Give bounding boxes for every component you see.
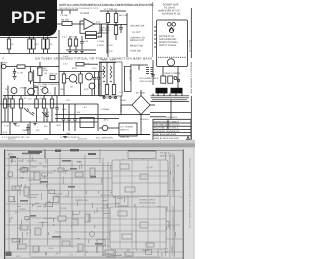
page2 wire v9 <box>115 160 117 252</box>
page2 wire h16 <box>30 256 160 258</box>
wire bridge bottom <box>140 115 142 135</box>
svg-text:2N3904: 2N3904 <box>20 87 28 90</box>
page2 module B rung 2 <box>110 230 166 232</box>
transistor Q6 <box>89 83 95 89</box>
svg-text:BABY BASS AMPLIFIER: BABY BASS AMPLIFIER <box>154 133 177 136</box>
page2 stub <box>161 252 163 257</box>
resistor R1 <box>7 39 10 49</box>
capacitor C17 <box>27 124 29 127</box>
page2 text cluster <box>138 197 180 206</box>
page2 dark mark <box>68 186 75 188</box>
svg-text:A.C. LINE FUSE 2A: A.C. LINE FUSE 2A <box>60 136 80 139</box>
svg-text:AND RATED AT 5% TOLERANCE TYPE: AND RATED AT 5% TOLERANCE TYPE <box>59 7 99 10</box>
page2 stub <box>94 211 96 214</box>
tone wire A <box>100 62 102 85</box>
capacitor C9 filter <box>171 88 183 94</box>
page2 wire v100 <box>99 149 101 163</box>
page2 wire short <box>117 197 123 199</box>
svg-text:ON TUBES GROUNDED TYPICAL OR: ON TUBES GROUNDED TYPICAL OR TOBIAS CONN… <box>35 57 152 61</box>
page2 junction <box>166 251 167 252</box>
tone squiggle 2 <box>110 66 112 78</box>
page2 stub <box>26 232 28 236</box>
page2 component box <box>46 203 53 207</box>
wire stub row b <box>24 87 26 96</box>
capacitor C21 <box>7 96 9 104</box>
svg-text:4-1.5 SCHEMATIC NO. 215: 4-1.5 SCHEMATIC NO. 215 <box>2 136 30 139</box>
page2 resistor r2 <box>34 172 40 180</box>
page2 resistor r12 <box>85 214 90 222</box>
plate line 1 <box>151 95 190 97</box>
wire stub row d <box>54 87 56 96</box>
page2 resistor r10 <box>58 216 66 221</box>
page2 wire short <box>102 200 108 202</box>
page2 component box <box>49 190 55 194</box>
page2 component box <box>162 222 169 228</box>
page2 module box <box>115 166 168 196</box>
svg-text:1K: 1K <box>11 43 14 46</box>
page2 junction <box>136 165 137 166</box>
wire midleft rail <box>0 103 55 105</box>
svg-text:60HZ: 60HZ <box>121 99 127 102</box>
page2 stub <box>93 225 95 228</box>
page2 module B rung 3 <box>110 241 166 243</box>
page2 header dash <box>22 153 40 155</box>
svg-text:MIX 1.3K: MIX 1.3K <box>119 14 128 17</box>
svg-text:C22: C22 <box>66 99 71 102</box>
wire stub row c <box>37 86 39 96</box>
page2 left stub <box>31 157 33 161</box>
svg-text:LO CUT: LO CUT <box>132 31 141 34</box>
page2 wire h6 <box>6 190 180 192</box>
svg-text:1K5: 1K5 <box>109 44 113 47</box>
svg-text:IC 4558: IC 4558 <box>80 12 90 15</box>
page2 wire short <box>100 194 112 196</box>
svg-text:4.5K: 4.5K <box>98 35 103 38</box>
wire r24 <box>84 63 98 65</box>
page2 module thru line a <box>119 160 121 249</box>
transistor Q2 <box>86 73 93 80</box>
page2 stub <box>172 218 174 223</box>
page2 stub <box>129 166 131 171</box>
page2 resistor r22 <box>155 219 161 224</box>
svg-text:TR-200 OUTPUT: TR-200 OUTPUT <box>139 199 156 202</box>
svg-text:C22: C22 <box>109 50 114 53</box>
wire module down right <box>177 67 179 89</box>
svg-text:BASS: BASS <box>102 59 108 62</box>
wire amp mid rail <box>120 105 122 115</box>
page2 module B vline <box>135 207 137 249</box>
page2 dark mark <box>40 181 48 183</box>
page2 wire short <box>142 249 149 251</box>
ground sym g1 <box>13 123 16 125</box>
page2 component box <box>9 197 15 202</box>
wire output down <box>106 24 108 54</box>
wire feedback loop <box>80 21 86 33</box>
page2 wire short <box>60 169 69 171</box>
svg-text:R 220K: R 220K <box>97 44 104 47</box>
svg-text:SLO-BLO: SLO-BLO <box>140 118 149 121</box>
psu wire left <box>152 60 154 85</box>
page2 dark mark <box>95 243 103 245</box>
svg-text:4-15: 4-15 <box>3 131 8 134</box>
comb tick 2 <box>157 94 159 96</box>
page2 stub <box>26 218 28 222</box>
page2 stub <box>48 232 50 235</box>
page2 module A part 3 <box>125 187 135 192</box>
page2 wire v14 <box>172 153 174 256</box>
transistor Q5b <box>42 88 48 94</box>
page2 stub <box>106 204 108 208</box>
page2 left stub <box>88 214 90 222</box>
page2 component box <box>163 172 168 176</box>
page2 dark mark <box>140 213 147 215</box>
page2 left hseg <box>19 238 27 240</box>
svg-text:1K: 1K <box>47 111 50 114</box>
page2 module B part 1 <box>118 211 127 216</box>
svg-text:35 V: 35 V <box>104 119 109 122</box>
page2 left hseg <box>73 213 79 215</box>
page2 stub <box>84 218 86 223</box>
svg-text:VOLUME 10K: VOLUME 10K <box>130 25 145 28</box>
page2 dark mark <box>55 150 61 153</box>
page2 module thru line d <box>159 160 161 249</box>
page2 left stub <box>22 232 24 238</box>
page2 wire short <box>114 160 123 162</box>
svg-text:MOTOR PLUS: MOTOR PLUS <box>159 35 175 38</box>
page2 module A part 2 <box>140 174 148 179</box>
wire badge stub A <box>8 37 10 40</box>
wire psu rail <box>130 64 148 66</box>
svg-text:C.1: C.1 <box>48 92 52 95</box>
page2 stub <box>128 246 130 250</box>
page2 stub <box>113 225 115 230</box>
svg-text:AMPLIT COMAS: AMPLIT COMAS <box>159 44 177 47</box>
page2 module rung extra a <box>112 175 168 177</box>
page2 stub <box>46 184 48 187</box>
page2 left stub <box>29 229 31 233</box>
page2 wire short <box>44 217 56 219</box>
potentiometer VR1 volume <box>114 26 117 35</box>
svg-text:POWER 215: POWER 215 <box>75 199 88 202</box>
page2 wire h13 <box>6 238 183 240</box>
page2 wire short <box>77 161 81 163</box>
relay K1 <box>80 118 94 128</box>
page2 dark mark <box>28 151 42 153</box>
page2 stub <box>135 246 137 251</box>
page2 resistor r8 <box>20 225 28 230</box>
terminal circles <box>168 23 172 27</box>
page2 stub <box>167 197 169 202</box>
transistor Q4 <box>11 88 17 94</box>
page2 stub <box>107 252 109 255</box>
page2 stub <box>22 239 24 243</box>
capacitor C11 <box>94 72 96 78</box>
page2 stub <box>23 166 25 169</box>
diode D3 <box>42 112 46 116</box>
page2 header mark <box>44 150 46 159</box>
svg-text:J2: J2 <box>2 57 5 60</box>
resistor R24 <box>76 63 84 66</box>
page2 junction <box>11 217 12 218</box>
page2 resistor r13 <box>18 244 26 249</box>
page2 wire short <box>76 238 80 240</box>
wire tone rail low <box>99 62 116 64</box>
svg-text:AMPLIFIEROND: AMPLIFIEROND <box>159 38 177 41</box>
wire transformer <box>120 96 122 112</box>
page2 stub <box>123 218 125 222</box>
page2 component box <box>53 196 59 203</box>
page2 dark mark <box>88 153 96 155</box>
svg-text:47PF: 47PF <box>84 88 90 91</box>
page2 module A part 1 <box>120 164 129 169</box>
svg-text:250K: 250K <box>43 69 48 72</box>
comb tick 6 <box>181 94 183 96</box>
wire stub pre-amp a <box>61 10 63 14</box>
page2 stub <box>109 232 111 236</box>
page2 wire h1 <box>6 158 100 160</box>
page2 module A rung 1 <box>112 170 168 172</box>
tone wire B <box>106 62 108 85</box>
page2 junction <box>94 170 95 171</box>
page2 wire short <box>27 160 37 162</box>
bus left upper <box>0 37 57 39</box>
wire module down left <box>162 67 164 77</box>
resistor R15 <box>30 67 32 72</box>
svg-text:REAR BOTTLE SPEAKER AMP: REAR BOTTLE SPEAKER AMP <box>190 62 193 94</box>
page gap shadow <box>0 140 195 143</box>
svg-text:REG: REG <box>43 166 48 169</box>
svg-text:4.7: 4.7 <box>36 43 40 46</box>
connector strip CN1 <box>125 66 132 91</box>
page2 wire short <box>27 196 37 198</box>
page2 stub <box>164 191 166 196</box>
page2 wire short <box>139 172 147 174</box>
page2 stub <box>11 159 13 162</box>
wire drop b <box>29 122 31 135</box>
page2 resistor r14 <box>33 246 39 252</box>
page2 wire v2 <box>17 157 19 250</box>
resistor R22 <box>4 96 6 100</box>
svg-text:NOTE: ALL CAPACITORS ARE 50 VO: NOTE: ALL CAPACITORS ARE 50 VOLT, AND WI… <box>59 3 154 7</box>
svg-text:C 4.7: C 4.7 <box>62 36 68 39</box>
speaker circle <box>167 59 174 66</box>
ground bus lower <box>1 121 98 123</box>
svg-text:C 4.7: C 4.7 <box>63 63 69 66</box>
page2 stub <box>137 239 139 242</box>
svg-text:R 10K: R 10K <box>71 36 77 39</box>
page2 stub <box>126 191 128 196</box>
wire stage2 rail <box>59 71 105 73</box>
plate line 4 <box>151 101 190 103</box>
page2 component box <box>142 173 146 180</box>
page2 left dense vline b <box>107 162 109 250</box>
tone section box <box>100 62 123 96</box>
page2 resistor r19 <box>146 183 153 191</box>
svg-text:.02: .02 <box>70 86 74 89</box>
resistor R8 10K <box>62 22 72 26</box>
page2 stub <box>121 246 123 250</box>
page2 resistor r20 <box>152 162 161 167</box>
page2 stub <box>123 197 125 202</box>
page2 left stub <box>77 201 79 206</box>
wire drop c <box>49 122 51 135</box>
page2 stub <box>172 178 174 182</box>
capacitor C18 <box>151 74 154 76</box>
potentiometer VR2 bass <box>105 85 108 95</box>
capacitor C22b <box>46 108 48 115</box>
page2 stub <box>43 204 45 208</box>
ground symbol b <box>74 51 77 53</box>
diode D4 <box>24 108 28 112</box>
page2 module B rung 1 <box>110 218 166 220</box>
svg-text:A.C. 230V/115V: A.C. 230V/115V <box>96 137 113 140</box>
page2 stub <box>134 204 136 208</box>
junction dot b <box>44 95 45 96</box>
terminal cluster ticks <box>146 67 149 69</box>
page2 component box <box>42 173 48 176</box>
diode D2 <box>29 112 34 116</box>
page2 module B part 4 <box>146 243 154 247</box>
power amp module U2 <box>157 20 188 67</box>
wire stub pre-amp b <box>69 10 71 14</box>
svg-text:BASS: BASS <box>103 97 109 100</box>
svg-text:LOW NOISE: LOW NOISE <box>166 116 178 119</box>
wire R14 right <box>25 66 59 68</box>
page2 left hseg <box>77 160 82 162</box>
page2 wire v5 <box>59 153 61 252</box>
svg-text:3W: 3W <box>77 111 80 114</box>
page2 junction <box>86 251 87 252</box>
svg-text:A.C. POWER: A.C. POWER <box>120 126 134 129</box>
svg-text:TERM STRIP: TERM STRIP <box>129 69 132 82</box>
section divider <box>152 2 154 57</box>
svg-text:AMPEG DIVISION UNIMUS: AMPEG DIVISION UNIMUS <box>154 120 180 123</box>
page2 junction <box>113 196 114 197</box>
page2 wire short <box>16 241 22 243</box>
transistor Q5 <box>169 28 173 32</box>
page2 wire short <box>135 225 140 227</box>
svg-text:IT 4.7MF 1K: IT 4.7MF 1K <box>104 8 118 11</box>
svg-text:PWR: PWR <box>48 172 53 175</box>
capacitor C15 <box>74 104 76 118</box>
page2 left stub <box>42 222 44 228</box>
page2 stub <box>114 211 116 216</box>
page2 resistor r7 <box>90 168 95 176</box>
page2 stub <box>101 178 103 183</box>
page2 wire v10 <box>127 163 129 256</box>
svg-text:R 12K: R 12K <box>84 63 90 66</box>
page2 wire h14 <box>20 245 140 247</box>
page2 component box <box>12 238 19 242</box>
page2 left stub <box>81 164 83 169</box>
page2 module A outline <box>112 160 168 196</box>
page2 left stub <box>96 207 98 212</box>
page2 stub <box>45 159 47 164</box>
wire title vertical <box>170 100 172 119</box>
capacitor C2 <box>69 36 71 39</box>
page2 header box <box>128 151 156 159</box>
page2 left hseg <box>24 169 29 171</box>
bottom bus <box>0 134 150 136</box>
svg-text:CONTROL TO: CONTROL TO <box>130 37 145 40</box>
svg-text:4.7K: 4.7K <box>96 21 101 24</box>
capacitor C10 <box>14 69 16 72</box>
wire stage2 vertical <box>58 30 60 96</box>
page2 module B part 3 <box>122 234 132 239</box>
page2 stub <box>79 211 81 214</box>
page2 stub <box>65 171 67 174</box>
page2 stub <box>78 166 80 170</box>
page2 junction <box>177 165 178 166</box>
page2 transistor t2 <box>90 232 95 237</box>
page2 wire short <box>100 207 111 209</box>
page2 left stub <box>41 193 43 199</box>
page2 wire v11 <box>142 158 144 250</box>
page2 dark mark <box>62 160 71 162</box>
revision triangle <box>187 136 190 139</box>
wire R8 to op-amp <box>72 23 84 25</box>
page2 junction <box>120 217 121 218</box>
page2 wire h15 <box>6 251 183 253</box>
page2 frame right <box>182 150 184 259</box>
resistor R14 68K <box>17 65 25 68</box>
input jack J1 <box>2 64 6 68</box>
potentiometer VR3 treble <box>112 85 115 95</box>
svg-text:TREB: TREB <box>110 59 116 62</box>
page2 left hseg <box>16 169 21 171</box>
page2 left hseg <box>39 222 49 224</box>
page2 wire short <box>115 231 123 233</box>
page2 resistor r15 <box>62 241 70 246</box>
resistor R4 <box>43 37 45 40</box>
wire stub row a <box>7 86 9 96</box>
resistor R16 <box>63 72 65 75</box>
page2 stub <box>145 171 147 174</box>
page2 wire v7 <box>84 155 86 256</box>
plate line 2 <box>151 97 190 99</box>
page2 resistor r16 <box>78 244 83 251</box>
terminal circles small <box>174 77 177 80</box>
svg-text:VOLUME: VOLUME <box>100 27 110 30</box>
page2 right vline pair a <box>169 153 171 257</box>
resistor R21 <box>51 96 53 100</box>
svg-text:PS-215: PS-215 <box>146 166 154 169</box>
resistor R19 <box>20 96 22 100</box>
wire left border <box>0 62 2 135</box>
page2 wire short <box>148 186 157 188</box>
page2 resistor r9 <box>35 228 41 235</box>
wire right margin lowest <box>190 113 192 140</box>
page2 wire h4 <box>6 177 140 179</box>
page2 wire v3 <box>29 153 31 256</box>
svg-text:PIN OUT 12: PIN OUT 12 <box>188 40 191 53</box>
svg-text:22K: 22K <box>60 88 64 91</box>
page2 left stub <box>10 158 12 163</box>
page2 component box <box>22 167 28 171</box>
page2 dark mark <box>90 176 96 178</box>
wire second channel h <box>34 82 59 84</box>
resistor R20 <box>43 96 45 100</box>
page2 stub <box>127 184 129 187</box>
page2 stub <box>157 204 159 208</box>
transistor Q3 <box>28 88 35 95</box>
page2 stub <box>67 191 69 196</box>
page2 resistor r4 <box>24 187 29 196</box>
dashed internal line <box>158 56 186 58</box>
page2 stub <box>44 252 46 255</box>
page2 wire h3 <box>20 170 160 172</box>
pot terminal circles <box>103 97 105 99</box>
